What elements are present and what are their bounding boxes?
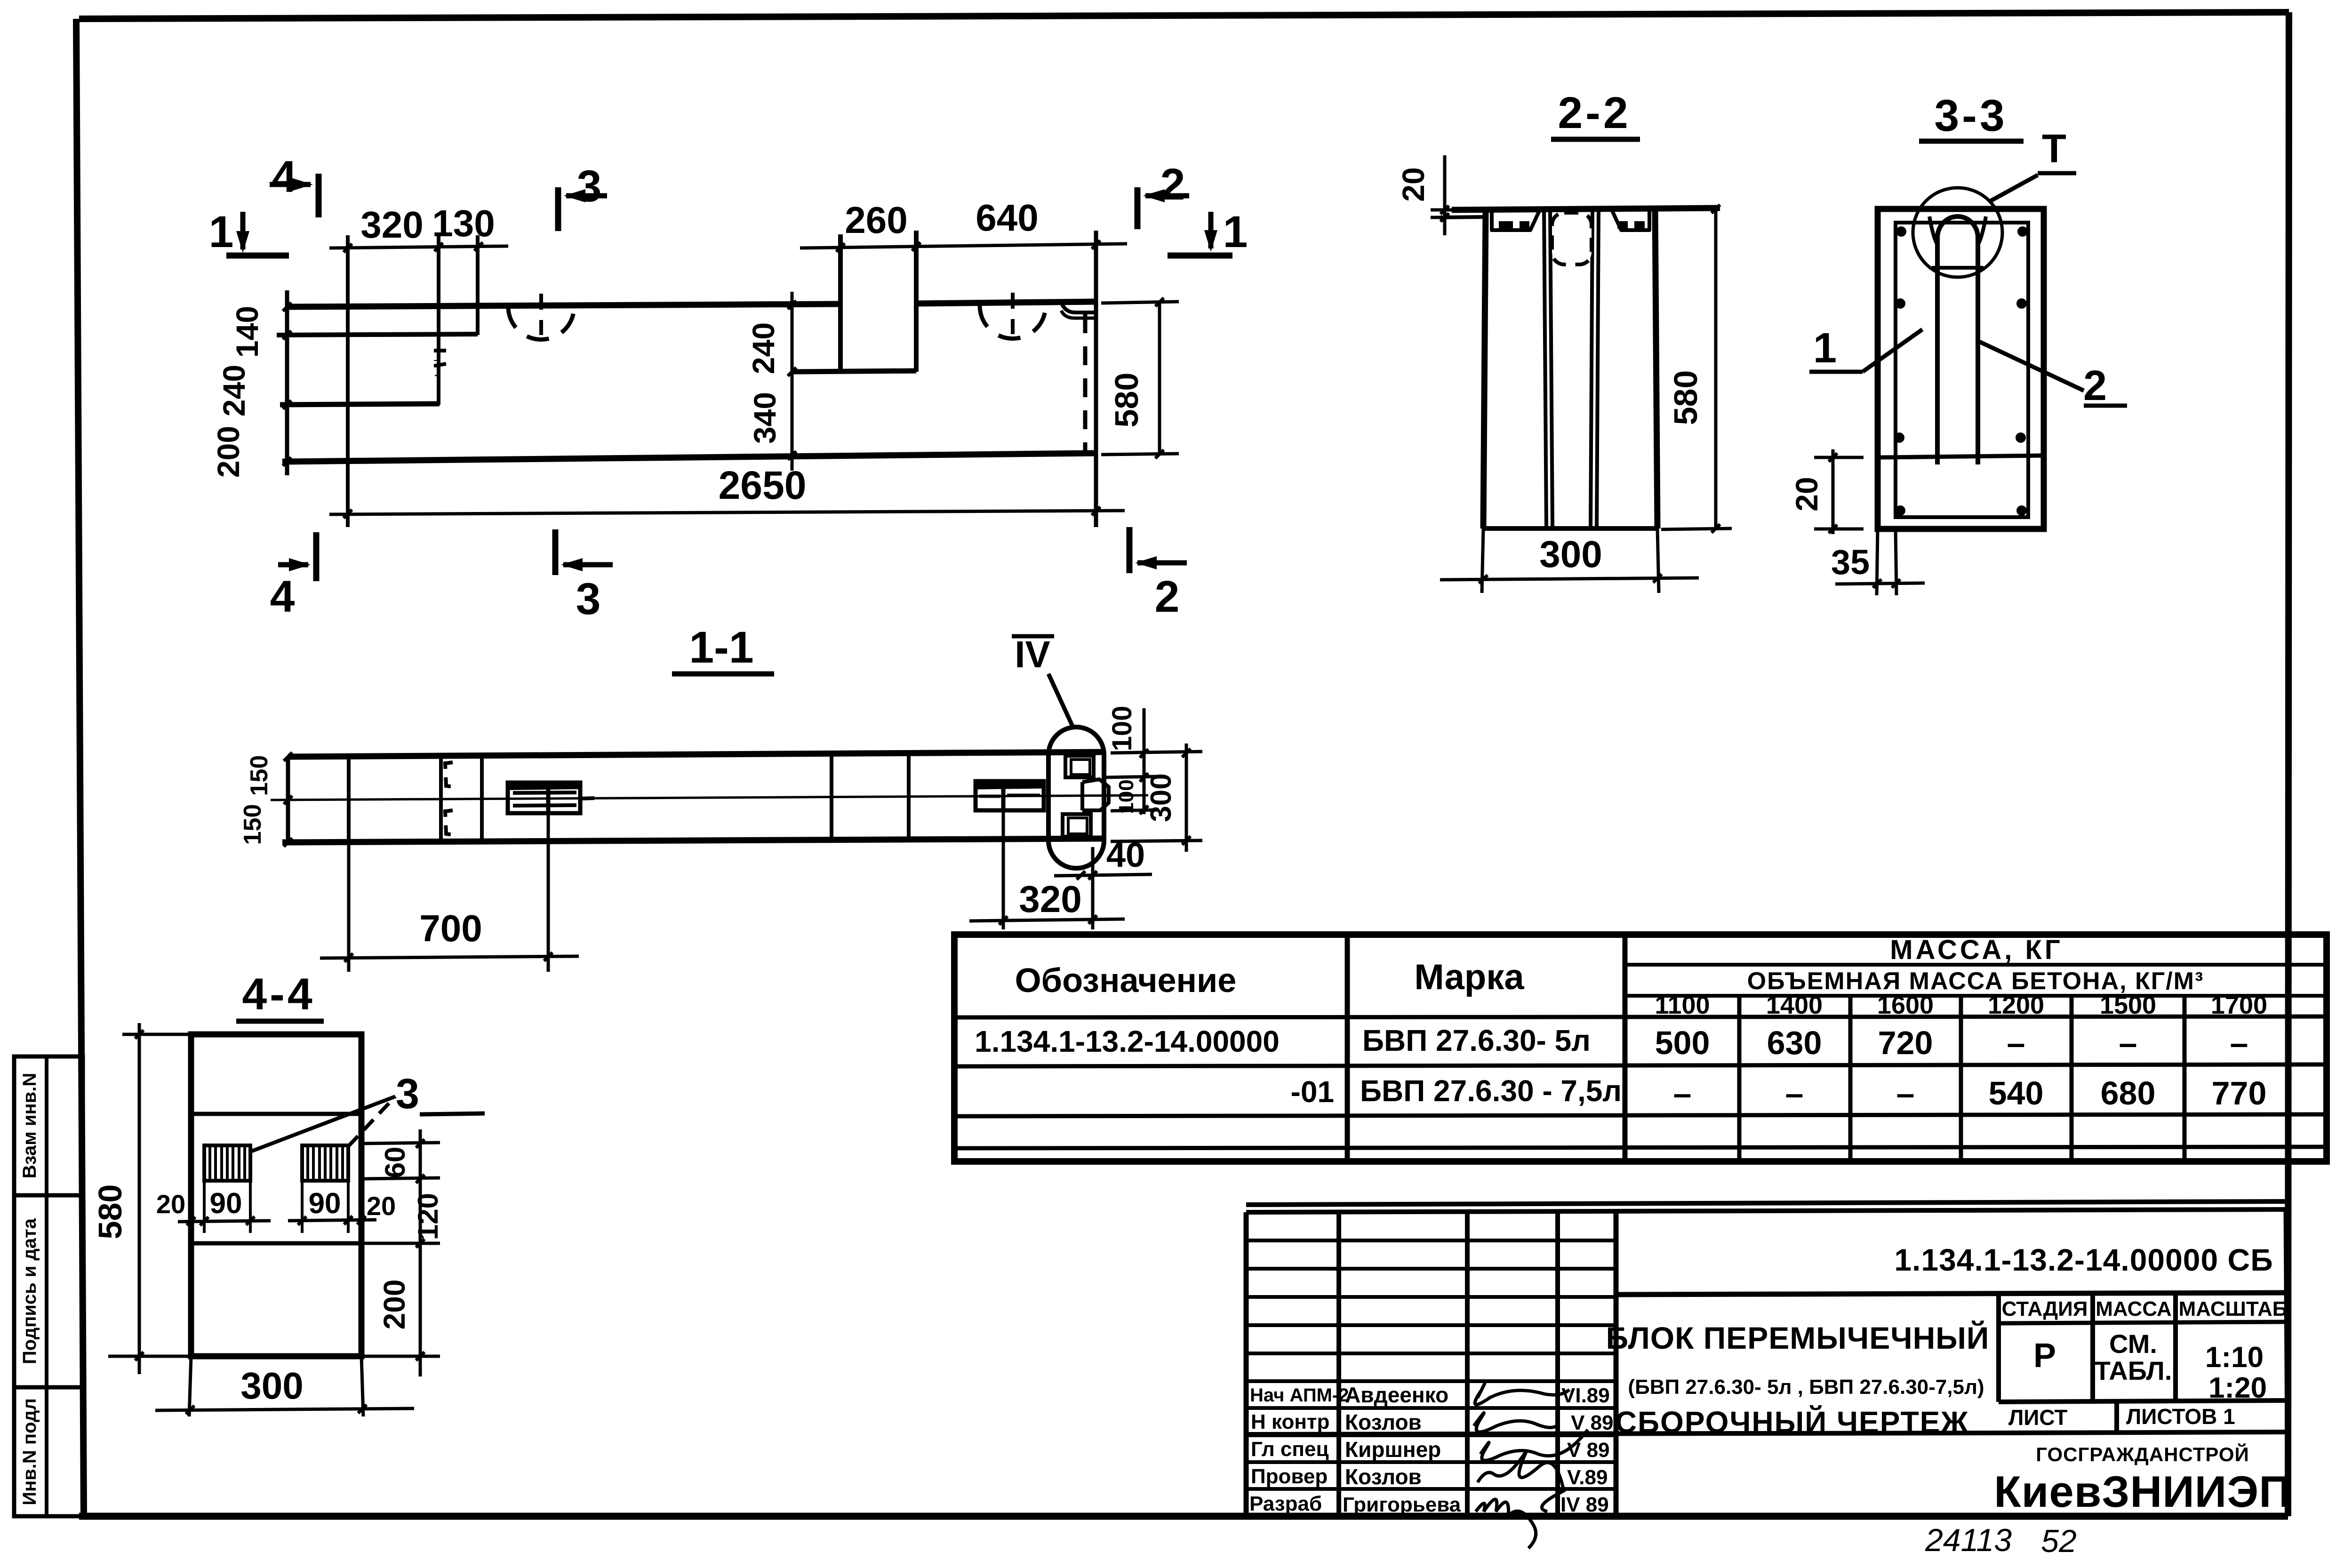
- section 3-3: inner horizontal line: [1880, 456, 2041, 457]
- plan view: vertical x1015: [476, 235, 480, 335]
- table row 1 values: [1655, 1024, 2248, 1061]
- leader 3 (section 4-4): [249, 1071, 485, 1152]
- svg-text:140: 140: [230, 306, 264, 358]
- svg-text:240: 240: [746, 322, 781, 374]
- svg-text:20: 20: [1789, 477, 1824, 511]
- table: outer border: [954, 935, 2327, 1161]
- plan view: top notch bottom: [792, 371, 916, 372]
- detail label T with leader: [1990, 127, 2076, 201]
- dimension 320 (plan): [329, 204, 508, 252]
- svg-text:300: 300: [1145, 773, 1177, 822]
- svg-text:150: 150: [246, 755, 273, 796]
- svg-text:1.134.1-13.2-14.00000 СБ: 1.134.1-13.2-14.00000 СБ: [1894, 1242, 2273, 1277]
- title block: main title lines: [1606, 1320, 1990, 1439]
- dimension 700 (section 1-1): [320, 813, 579, 972]
- section 4-4: lower inner line: [191, 1241, 361, 1246]
- svg-text:3: 3: [396, 1071, 419, 1118]
- title block: list row: [1999, 1402, 2288, 1433]
- svg-text:Н контр: Н контр: [1251, 1410, 1329, 1433]
- svg-text:Козлов: Козлов: [1345, 1410, 1422, 1434]
- dimension 580 (plan right): [1101, 298, 1179, 458]
- svg-text:200: 200: [211, 426, 246, 478]
- dimensions 20 90 90 20 (section 4-4): [156, 1181, 396, 1233]
- dimension 340 (plan right): [747, 392, 796, 471]
- table row 2 values: [1673, 1075, 2267, 1112]
- dimension 100 top (section 1-1): [1104, 706, 1158, 782]
- svg-text:IV 89: IV 89: [1560, 1493, 1609, 1516]
- plan view: step line 140: [277, 334, 478, 335]
- dimension 20 (section 2-2): [1396, 155, 1454, 235]
- section 2-2: left wall: [1483, 210, 1486, 528]
- svg-text:БЛОК ПЕРЕМЫЧЕЧНЫЙ: БЛОК ПЕРЕМЫЧЕЧНЫЙ: [1606, 1320, 1990, 1355]
- svg-text:БВП 27.6.30 - 7,5л: БВП 27.6.30 - 7,5л: [1360, 1074, 1622, 1108]
- section 3-3: outer rectangle: [1878, 209, 2044, 529]
- svg-text:Р: Р: [2033, 1337, 2056, 1375]
- svg-text:640: 640: [976, 197, 1038, 239]
- section 1-1: lifting loop capsule: [1048, 727, 1104, 868]
- svg-text:240: 240: [216, 365, 251, 416]
- svg-text:20: 20: [367, 1191, 396, 1221]
- dimension 580 (section 2-2): [1661, 205, 1732, 533]
- svg-text:540: 540: [1989, 1075, 2044, 1112]
- signatures squiggles: [1474, 1384, 1588, 1548]
- dimension 240 (plan left): [216, 365, 291, 416]
- svg-text:580: 580: [92, 1184, 128, 1240]
- svg-text:680: 680: [2101, 1075, 2156, 1112]
- svg-text:V 89: V 89: [1571, 1411, 1614, 1434]
- svg-text:260: 260: [845, 199, 907, 241]
- svg-text:580: 580: [1667, 370, 1704, 425]
- svg-text:IV: IV: [1015, 633, 1050, 675]
- svg-text:Нач АПМ-2: Нач АПМ-2: [1250, 1385, 1349, 1406]
- plan view: dashed lifting-loop arc left: [508, 306, 574, 340]
- capsule bottom square: [1063, 814, 1091, 837]
- section 2-2: center channel walls: [1544, 210, 1599, 527]
- plan view: small dashed insert mark: [436, 351, 446, 361]
- detail label IV with leader: [1012, 633, 1073, 727]
- section 2-2: left bearing lip: [1492, 210, 1540, 230]
- capsule right tab: [1082, 779, 1109, 810]
- section 1-1: axis line: [271, 795, 1148, 800]
- section 2-2 title: [1551, 88, 1640, 139]
- svg-text:–: –: [2007, 1024, 2025, 1061]
- right dimension chain 60 120 200 (section 4-4): [361, 1129, 444, 1376]
- svg-text:1: 1: [1223, 207, 1248, 257]
- section 4-4: outer rectangle: [191, 1034, 361, 1356]
- section mark 2 bottom: [1129, 527, 1187, 622]
- plan view: top notch left wall: [838, 234, 843, 372]
- dimension 240 (plan right): [746, 292, 796, 395]
- svg-text:Козлов: Козлов: [1345, 1464, 1422, 1489]
- title block: stadia header row: [1999, 1293, 2288, 1402]
- table: row lines: [954, 965, 2327, 1148]
- svg-text:–: –: [2230, 1024, 2248, 1061]
- svg-text:Т: Т: [2042, 127, 2066, 171]
- svg-text:2: 2: [1160, 160, 1185, 209]
- svg-text:35: 35: [1831, 543, 1870, 582]
- section 1-1: embedded plate 2: [976, 781, 1044, 810]
- svg-text:20: 20: [1396, 167, 1431, 201]
- section 2-2: bottom edge: [1483, 526, 1657, 531]
- section 2-2: dashed loop anchor: [1552, 213, 1592, 264]
- dimension 300 (section 1-1): [1111, 744, 1202, 852]
- svg-text:ЛИСТ: ЛИСТ: [2008, 1405, 2068, 1430]
- title block: organization: [1994, 1443, 2291, 1516]
- svg-text:2: 2: [1155, 572, 1180, 622]
- section 4-4: hatched insert left: [204, 1145, 250, 1181]
- svg-text:Разраб: Разраб: [1249, 1492, 1322, 1515]
- section mark 3 top: [558, 161, 607, 231]
- svg-text:100: 100: [1115, 779, 1138, 814]
- signature table label rows: [1246, 1408, 1616, 1489]
- svg-text:90: 90: [309, 1187, 341, 1220]
- title block: outer box top double line: [1246, 1201, 2288, 1516]
- table: vertical col1/col2: [1345, 935, 1350, 1161]
- leader 2 (section 3-3): [1979, 342, 2127, 409]
- svg-text:20: 20: [156, 1189, 185, 1219]
- title block: line under title: [1246, 1433, 1999, 1434]
- plan view: vertical x739 extension: [346, 235, 350, 527]
- plan view: hidden dashed edge near right end: [1083, 314, 1088, 451]
- svg-text:V 89: V 89: [1567, 1439, 1610, 1462]
- left margin stamp strip: [14, 1056, 83, 1516]
- svg-text:1: 1: [209, 207, 234, 257]
- dimension 580 (section 4-4): [92, 1023, 198, 1374]
- svg-text:4-4: 4-4: [242, 969, 315, 1019]
- dimension 320 (section 1-1): [969, 810, 1125, 929]
- title block: stadia values: [2033, 1329, 2267, 1404]
- svg-text:–: –: [1673, 1075, 1692, 1112]
- svg-text:24113: 24113: [1925, 1522, 2012, 1558]
- table: sub column lines: [1739, 996, 2184, 1161]
- svg-text:2650: 2650: [719, 463, 807, 507]
- svg-text:40: 40: [1106, 835, 1145, 874]
- section mark 2 top: [1137, 160, 1189, 229]
- svg-text:120: 120: [412, 1193, 444, 1240]
- section 3-3: detail circle: [1913, 188, 2002, 277]
- section 4-4 title: [236, 969, 324, 1021]
- svg-text:–: –: [1896, 1075, 1915, 1112]
- capsule top square: [1065, 756, 1094, 777]
- dimension 140 (plan left): [230, 303, 291, 358]
- svg-text:1: 1: [1813, 325, 1837, 372]
- leader 1 (section 3-3): [1809, 325, 1922, 372]
- section mark 3 bottom: [555, 529, 613, 624]
- svg-text:СМ.: СМ.: [2109, 1329, 2157, 1359]
- svg-text:(БВП 27.6.30- 5л , БВП 27.6.30: (БВП 27.6.30- 5л , БВП 27.6.30-7,5л): [1628, 1376, 1984, 1399]
- section 1-1: joint line x1767: [830, 753, 833, 839]
- svg-text:3-3: 3-3: [1934, 91, 2007, 141]
- svg-text:700: 700: [419, 907, 482, 949]
- section 1-1: joint line x1931: [907, 752, 911, 839]
- plan view: top notch right wall: [914, 231, 919, 372]
- section 1-1: joint line x741: [347, 755, 351, 842]
- svg-text:90: 90: [210, 1187, 242, 1220]
- svg-text:ГОСГРАЖДАНСТРОЙ: ГОСГРАЖДАНСТРОЙ: [2036, 1443, 2249, 1465]
- svg-text:500: 500: [1655, 1024, 1710, 1061]
- svg-text:130: 130: [432, 202, 495, 244]
- section 2-2: right wall: [1655, 209, 1657, 528]
- svg-text:МАССА: МАССА: [2096, 1297, 2172, 1320]
- svg-text:Киршнер: Киршнер: [1345, 1437, 1441, 1462]
- section 1-1: dashed bracket marks: [445, 762, 454, 787]
- dimension 300 (section 2-2): [1440, 528, 1699, 593]
- svg-text:52: 52: [2041, 1523, 2077, 1559]
- svg-text:1700: 1700: [2211, 991, 2267, 1019]
- dimension 2650 (plan): [329, 463, 1125, 518]
- table: vertical col2/col3: [1623, 935, 1628, 1161]
- svg-text:Провер: Провер: [1251, 1465, 1328, 1488]
- svg-text:Взам инв.N: Взам инв.N: [19, 1073, 40, 1179]
- svg-text:770: 770: [2212, 1075, 2267, 1112]
- svg-text:2: 2: [2083, 362, 2107, 409]
- svg-text:2-2: 2-2: [1558, 88, 1631, 138]
- svg-text:VI.89: VI.89: [1561, 1384, 1610, 1407]
- svg-text:3: 3: [577, 161, 602, 211]
- title block: line under doc number: [1616, 1293, 2288, 1295]
- plan view: small ledge at right top: [1061, 302, 1094, 312]
- signature table columns: [1339, 1209, 1616, 1516]
- section 3-3: rebar dots: [1894, 226, 2028, 516]
- svg-text:КиевЗНИИЭП: КиевЗНИИЭП: [1994, 1467, 2291, 1516]
- section 2-2: top edge: [1452, 208, 1720, 210]
- section 4-4: upper inner line: [191, 1112, 361, 1116]
- dimension 100 middle (section 1-1): [1111, 779, 1158, 814]
- plan view: beam bottom edge: [282, 453, 1096, 462]
- dimension 150 150 (section 1-1 left): [239, 752, 292, 847]
- section mark 4 top: [270, 152, 319, 217]
- svg-text:60: 60: [379, 1147, 411, 1178]
- svg-text:–: –: [2119, 1024, 2137, 1061]
- svg-text:1600: 1600: [1877, 991, 1934, 1019]
- plan view: step line 240: [280, 404, 440, 405]
- signature table narrow rows: [1246, 1240, 1616, 1381]
- svg-text:МАССА, КГ: МАССА, КГ: [1890, 935, 2063, 965]
- svg-text:340: 340: [747, 392, 782, 444]
- dimension 35 (section 3-3): [1831, 529, 1925, 595]
- section 2-2: flange underside left: [1440, 217, 1486, 217]
- section 1-1: joint line x937: [439, 755, 443, 841]
- svg-text:1100: 1100: [1655, 991, 1710, 1019]
- dimension 20 (section 3-3): [1789, 449, 1864, 534]
- svg-text:СТАДИЯ: СТАДИЯ: [2002, 1297, 2088, 1320]
- plan view: vertical x932: [437, 235, 440, 405]
- svg-text:-01: -01: [1291, 1075, 1335, 1109]
- svg-text:Гл спец: Гл спец: [1251, 1438, 1329, 1461]
- section mark 4 bottom: [270, 532, 316, 622]
- svg-text:Авдеенко: Авдеенко: [1345, 1383, 1448, 1407]
- svg-text:300: 300: [1539, 533, 1602, 575]
- svg-text:320: 320: [360, 204, 423, 246]
- section 1-1: joint line x1024: [480, 754, 484, 841]
- plan view: right end edge: [1094, 231, 1098, 527]
- svg-text:ТАБЛ.: ТАБЛ.: [2095, 1356, 2172, 1385]
- plan view: beam top edge: [288, 304, 840, 307]
- section 1-1: embedded plate 1: [508, 783, 594, 813]
- table subheaders densities: [1655, 991, 2267, 1019]
- svg-text:580: 580: [1108, 373, 1145, 428]
- svg-text:630: 630: [1767, 1024, 1822, 1061]
- section 1-1: beam outline: [282, 752, 1104, 842]
- svg-text:100: 100: [1107, 706, 1137, 752]
- svg-text:МАСШТАБ: МАСШТАБ: [2179, 1297, 2288, 1320]
- svg-text:1-1: 1-1: [689, 623, 753, 672]
- svg-text:1400: 1400: [1766, 991, 1823, 1019]
- svg-text:Инв.N подл: Инв.N подл: [19, 1398, 40, 1505]
- svg-text:–: –: [1785, 1075, 1804, 1112]
- section mark 1 right: [1168, 207, 1248, 257]
- svg-text:200: 200: [377, 1280, 411, 1330]
- svg-text:1500: 1500: [2100, 991, 2156, 1019]
- svg-text:4: 4: [270, 572, 295, 622]
- svg-text:1:10: 1:10: [2205, 1341, 2264, 1374]
- dimension 300 (section 4-4): [155, 1356, 414, 1416]
- svg-text:V.89: V.89: [1567, 1466, 1608, 1489]
- svg-text:Подпись и дата: Подпись и дата: [19, 1218, 40, 1364]
- svg-text:150: 150: [239, 804, 266, 845]
- svg-text:1.134.1-13.2-14.00000: 1.134.1-13.2-14.00000: [975, 1024, 1280, 1058]
- svg-text:1200: 1200: [1988, 991, 2044, 1019]
- svg-text:300: 300: [240, 1365, 303, 1407]
- section 1-1 title: [672, 623, 774, 674]
- dimension 40 (section 1-1): [1054, 835, 1152, 880]
- title block: line under stadia values: [1999, 1400, 2288, 1402]
- section 3-3: inner cage rectangle: [1896, 223, 2028, 517]
- svg-text:3: 3: [576, 574, 601, 624]
- dimension 200 (plan left): [211, 426, 291, 478]
- section 3-3: lifting loop: [1929, 216, 1986, 464]
- svg-text:БВП 27.6.30- 5л: БВП 27.6.30- 5л: [1362, 1024, 1591, 1057]
- plan view: dashed lifting-loop arc right: [980, 305, 1046, 338]
- svg-text:320: 320: [1019, 878, 1081, 920]
- svg-text:Марка: Марка: [1414, 957, 1524, 997]
- svg-text:Григорьева: Григорьева: [1343, 1493, 1461, 1516]
- dimension 640 (plan): [941, 197, 1127, 249]
- svg-text:ЛИСТОВ 1: ЛИСТОВ 1: [2126, 1404, 2235, 1429]
- svg-text:4: 4: [272, 152, 297, 202]
- section 2-2: right bearing lip: [1612, 210, 1649, 230]
- svg-text:Обозначение: Обозначение: [1015, 962, 1237, 1000]
- svg-text:720: 720: [1878, 1024, 1933, 1061]
- section 4-4: hatched insert right: [302, 1145, 348, 1181]
- section 3-3 title: [1919, 91, 2024, 141]
- dimension 260 (plan): [800, 199, 941, 252]
- plan view: left end edge: [285, 290, 289, 475]
- section mark 1 left: [209, 207, 289, 257]
